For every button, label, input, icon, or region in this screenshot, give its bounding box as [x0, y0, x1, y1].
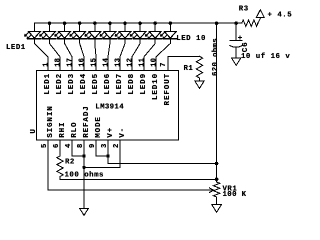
svg-text:REFOUT: REFOUT	[164, 73, 172, 105]
LED4 light arrows	[70, 32, 77, 39]
svg-text:C6: C6	[242, 41, 250, 52]
ground pin 8	[80, 209, 88, 216]
ground R1	[195, 81, 204, 88]
wire LED1 cathode to pin 1	[34, 39, 48, 71]
junction dot MODE/V+	[106, 154, 110, 158]
svg-text:2: 2	[113, 143, 121, 148]
svg-text:R2: R2	[65, 158, 75, 166]
LED 1	[28, 23, 41, 39]
svg-text:LM3914: LM3914	[95, 104, 124, 112]
svg-text:11: 11	[139, 57, 147, 67]
junction dot RLO/REFADJ	[82, 154, 86, 158]
wire LED5 cathode to pin 15	[95, 39, 96, 71]
op-amp U1 LM3914 IC box	[37, 70, 179, 140]
svg-text:17: 17	[67, 58, 75, 67]
LED 4	[73, 23, 86, 39]
svg-text:LED1: LED1	[44, 73, 52, 95]
LED10 light arrows	[160, 32, 167, 39]
junction dot V+/rail	[215, 162, 219, 166]
svg-text:1: 1	[43, 62, 51, 67]
junction dot LED10 anode	[169, 21, 173, 25]
svg-text:LED6: LED6	[104, 73, 112, 95]
LED5 light arrows	[85, 32, 92, 39]
svg-text:10 uf 16 v: 10 uf 16 v	[241, 53, 290, 61]
junction dot LED6 anode	[108, 21, 112, 25]
LED 3	[58, 23, 71, 39]
wire LED6 cathode to pin 14	[108, 39, 110, 71]
svg-text:RLO: RLO	[71, 122, 79, 138]
svg-text:V-: V-	[119, 127, 127, 138]
LED 2	[43, 23, 56, 39]
wire +V rail	[216, 23, 218, 182]
svg-text:13: 13	[115, 58, 123, 67]
svg-text:16: 16	[79, 58, 87, 67]
+4.5 supply arrow	[256, 10, 264, 18]
LED 7	[118, 23, 131, 39]
svg-text:LED2: LED2	[56, 73, 64, 95]
LED8 light arrows	[130, 32, 137, 39]
wire LED3 cathode to pin 17	[65, 39, 72, 71]
junction dot LED3 anode	[63, 21, 67, 25]
svg-text:5: 5	[41, 143, 49, 148]
wire pin 8 REFADJ to ground	[83, 140, 85, 209]
wire LED10 cathode to pin 10	[156, 39, 170, 71]
junction dot V-/pin8	[82, 166, 86, 170]
wire pin 7 REFOUT to R1	[168, 56, 200, 70]
resistor R2	[57, 156, 63, 177]
svg-text:14: 14	[103, 57, 111, 67]
wire R2 bottom to rail	[60, 177, 217, 180]
svg-text:LED4: LED4	[80, 73, 88, 95]
svg-text:15: 15	[91, 58, 99, 67]
svg-text:R3: R3	[239, 5, 249, 13]
svg-text:100 K: 100 K	[223, 191, 247, 199]
svg-text:100 ohms: 100 ohms	[65, 171, 104, 179]
svg-text:LED8: LED8	[128, 73, 136, 95]
wiper arrowhead	[208, 188, 214, 193]
svg-text:MODE: MODE	[95, 116, 103, 138]
wire LED8 cathode to pin 12	[132, 39, 140, 71]
potentiometer VR1	[213, 182, 219, 197]
wire anode bus	[34, 22, 241, 24]
junction dot LED5 anode	[93, 21, 97, 25]
svg-text:+ 4.5: + 4.5	[268, 11, 293, 19]
resistor R1	[196, 56, 202, 78]
svg-text:SIGNIN: SIGNIN	[47, 105, 55, 137]
ground VR1	[212, 204, 222, 212]
wire LED2 cathode to pin 18	[50, 39, 61, 71]
svg-text:LED5: LED5	[92, 73, 100, 95]
svg-text:4: 4	[65, 143, 73, 148]
resistor R3	[242, 20, 258, 26]
svg-text:10: 10	[151, 58, 159, 67]
LED 8	[134, 23, 147, 39]
wire LED7 cathode to pin 13	[120, 39, 125, 71]
LED 10	[164, 23, 177, 39]
junction dot LED2 anode	[48, 21, 52, 25]
svg-text:620 ohms: 620 ohms	[212, 38, 220, 76]
wire to +4.5 arrow	[258, 19, 261, 24]
LED3 light arrows	[55, 32, 62, 39]
svg-text:V+: V+	[107, 127, 115, 138]
junction dot LED7 anode	[123, 21, 127, 25]
wire LED9 cathode to pin 11	[144, 39, 155, 71]
svg-text:3: 3	[101, 143, 109, 148]
svg-text:18: 18	[55, 58, 63, 67]
LED 6	[103, 23, 116, 39]
LED 5	[88, 23, 101, 39]
svg-text:REFADJ: REFADJ	[83, 105, 91, 137]
svg-text:8: 8	[77, 143, 85, 148]
junction dot LED8 anode	[138, 21, 142, 25]
svg-text:LED10: LED10	[152, 73, 160, 100]
junction dot LED9 anode	[153, 21, 157, 25]
wire pin 9 MODE to pin 3	[96, 140, 108, 156]
svg-text:LED 10: LED 10	[176, 35, 206, 43]
LED6 light arrows	[100, 32, 107, 39]
svg-text:RHI: RHI	[59, 122, 67, 138]
svg-text:R1: R1	[184, 65, 194, 73]
LED1 light arrows	[25, 32, 32, 39]
LED9 light arrows	[145, 32, 152, 39]
capacitor C6	[235, 23, 237, 40]
svg-text:7: 7	[160, 62, 168, 67]
junction dot bus/C6	[234, 21, 238, 25]
svg-text:6: 6	[53, 143, 61, 148]
junction dot bus/rail	[215, 21, 219, 25]
wire LED4 cathode to pin 16	[80, 39, 84, 71]
wire pin 6 RHI to R2	[59, 140, 61, 156]
svg-text:12: 12	[127, 58, 135, 67]
LED 9	[149, 23, 162, 39]
wire pin 3 V+ to rail	[108, 140, 217, 164]
ground C6	[232, 58, 241, 65]
svg-text:LED7: LED7	[116, 73, 124, 95]
svg-text:LED9: LED9	[140, 73, 148, 95]
wire pin 2 V- to pin 8	[84, 140, 120, 168]
svg-text:LED3: LED3	[68, 73, 76, 95]
junction dot R2/rail	[215, 178, 219, 182]
junction dot LED4 anode	[78, 21, 82, 25]
wire pin 4 RLO to pin 8	[72, 140, 84, 156]
svg-text:9: 9	[89, 143, 97, 148]
svg-text:U: U	[30, 128, 38, 133]
wire pin 5 SIGNIN to VR1 wiper	[48, 140, 208, 190]
plus sign C6	[238, 36, 241, 39]
LED2 light arrows	[40, 32, 47, 39]
LED7 light arrows	[115, 32, 122, 39]
svg-text:LED1: LED1	[6, 44, 26, 52]
